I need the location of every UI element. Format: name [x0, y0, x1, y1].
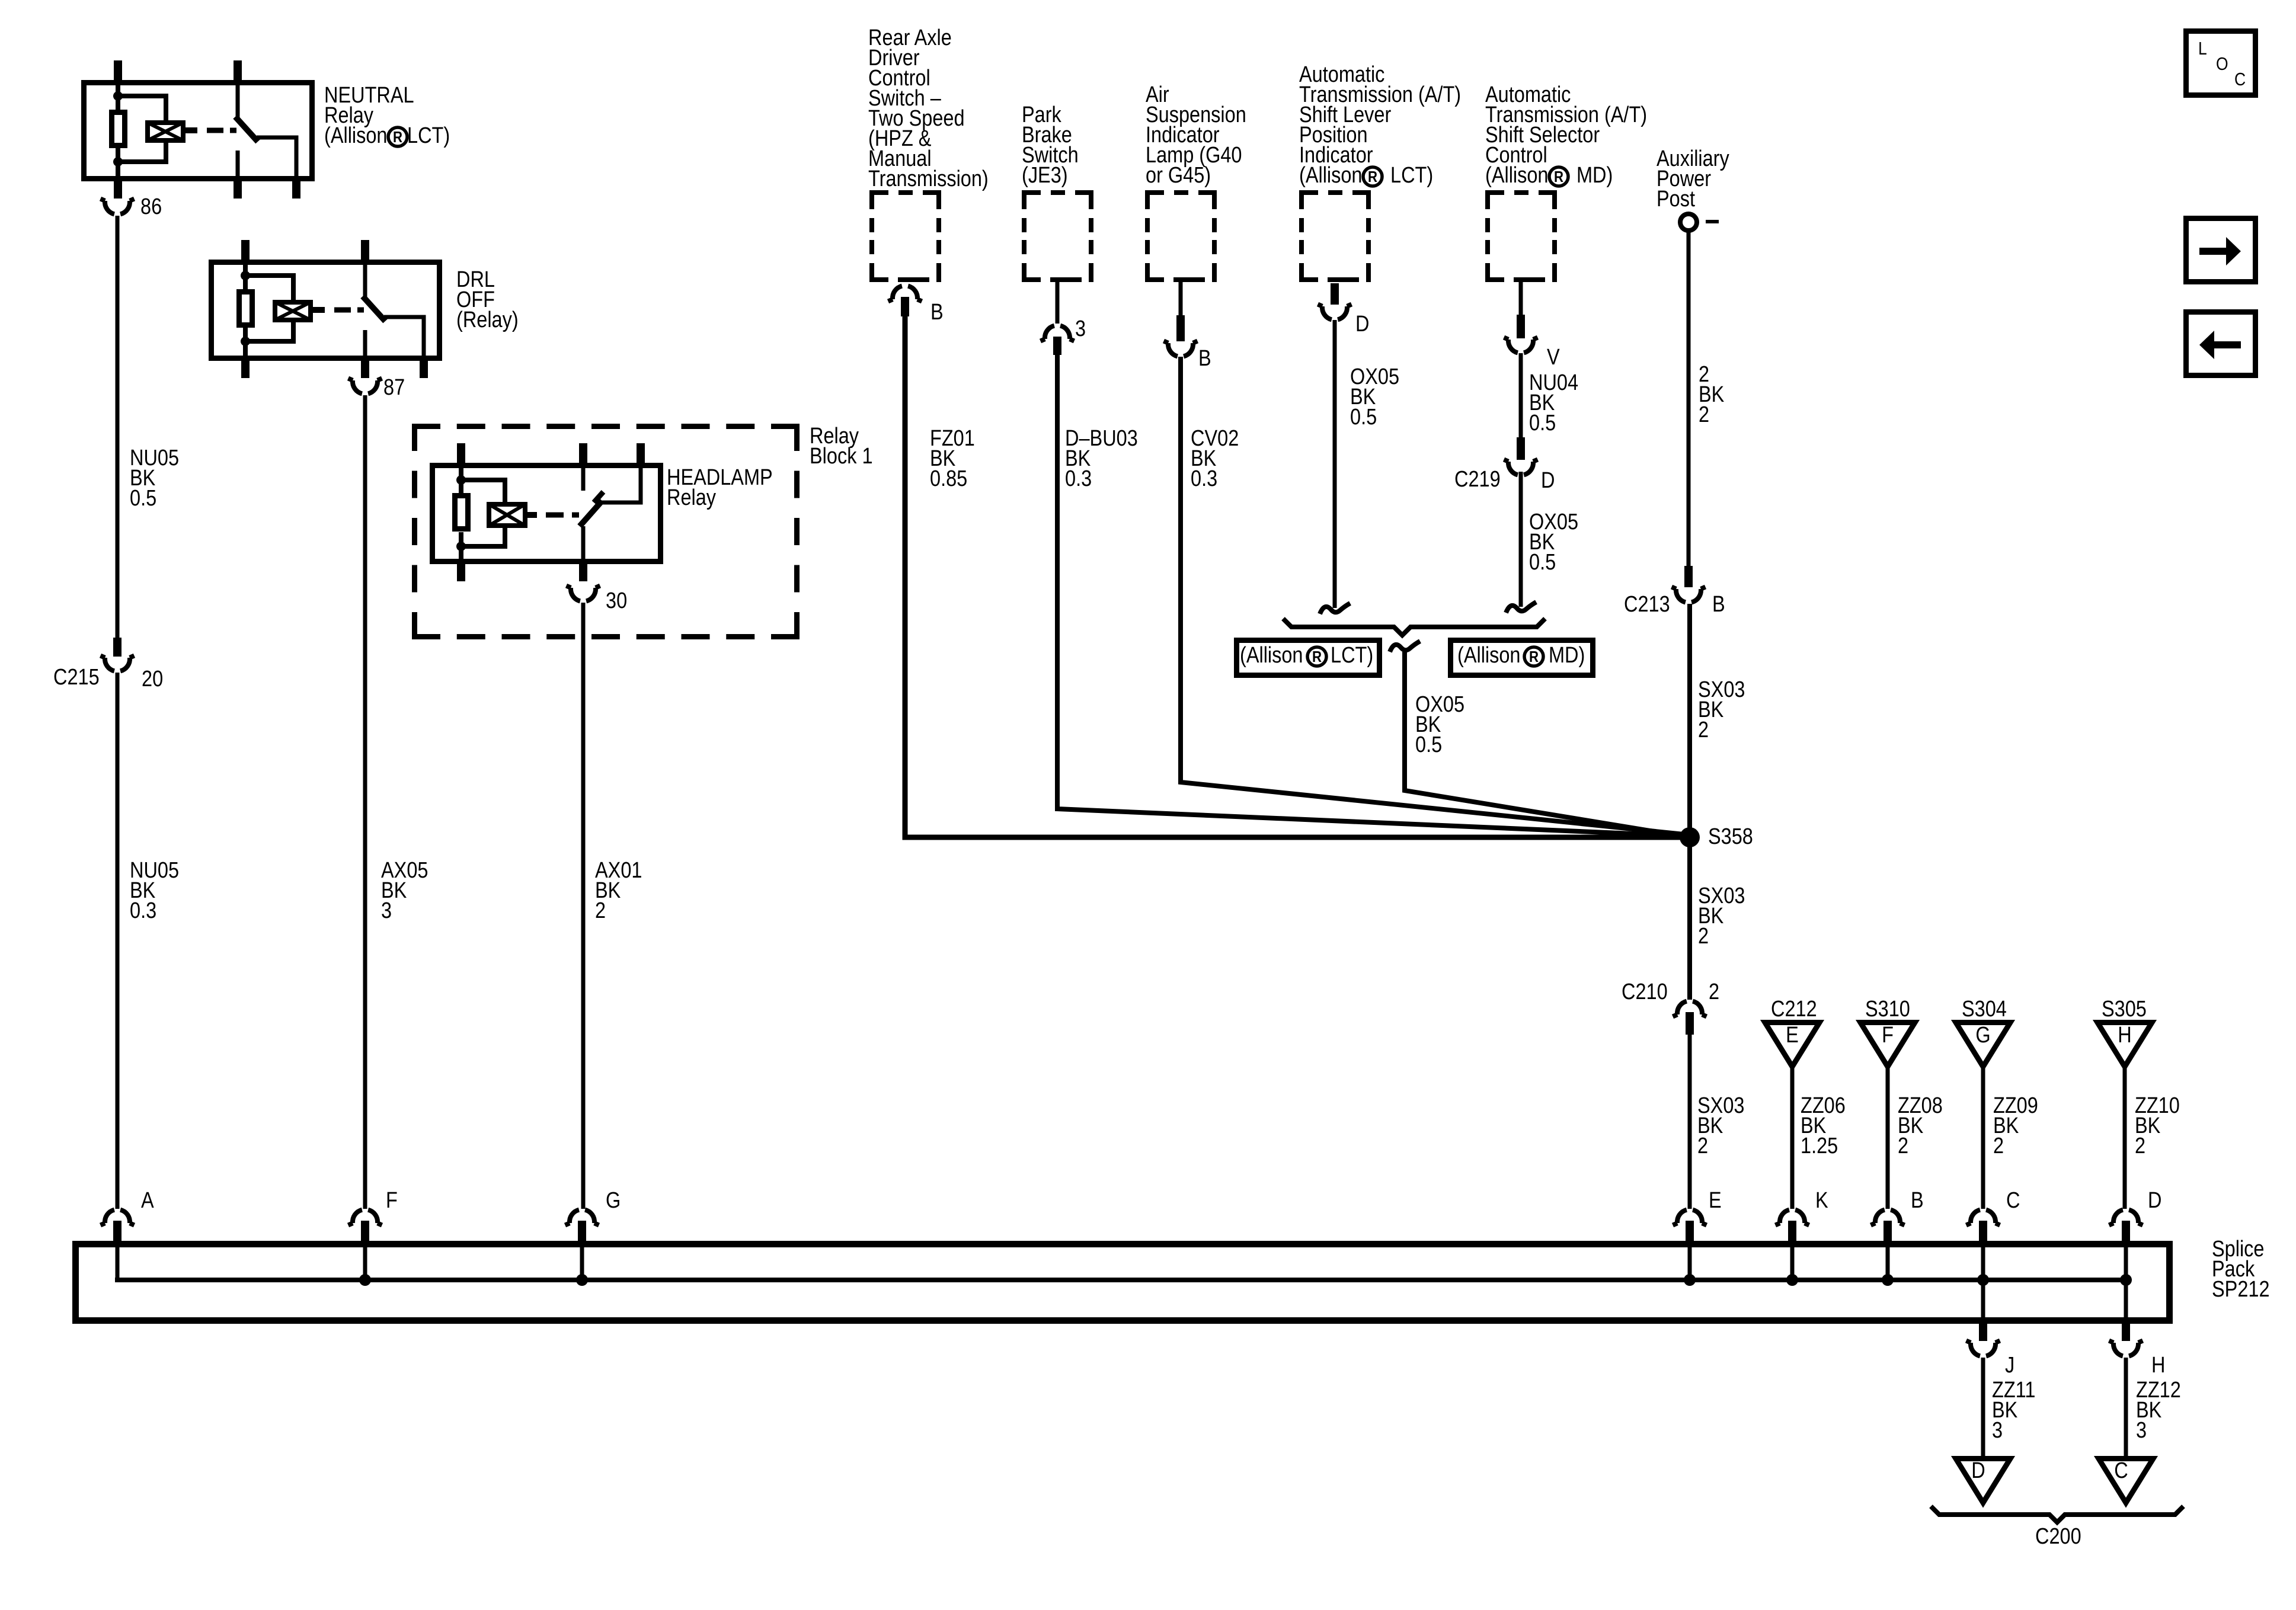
connector: Shift Lever Indicator terminal D — [1318, 283, 1352, 319]
svg-text:3: 3 — [381, 898, 392, 923]
wire NU05 BK 0.3 : C215 to SP212 cavity A — [116, 673, 120, 1209]
svg-text:S358: S358 — [1708, 824, 1753, 849]
svg-text:F: F — [1882, 1023, 1894, 1048]
label: Park Brake Switch (JE3) — [1022, 103, 1079, 188]
wire label SX03 BK 2 — [1697, 1093, 1744, 1158]
boxed label (Allison R LCT) — [1237, 641, 1380, 676]
splice/connector S304 triangle G — [1956, 1023, 2010, 1067]
svg-text:2: 2 — [1709, 980, 1719, 1004]
wire label FZ01 BK 0.85 — [930, 426, 975, 491]
label: NEUTRAL Relay (Allison R LCT) — [324, 83, 450, 148]
SP212 cavity G connector — [565, 1210, 599, 1280]
label C215 — [53, 665, 100, 690]
svg-text:20: 20 — [142, 667, 163, 692]
pin label 86 — [140, 194, 162, 219]
svg-text:0.5: 0.5 — [130, 486, 156, 511]
svg-text:2: 2 — [595, 898, 606, 923]
connector: Shift Selector Control terminal V — [1504, 282, 1538, 353]
splice/connector S310 triangle F — [1860, 1023, 1915, 1067]
svg-text:(Allison: (Allison — [1457, 643, 1521, 668]
svg-text:B: B — [1911, 1188, 1924, 1213]
svg-text:R: R — [1554, 168, 1563, 185]
svg-text:3: 3 — [1075, 316, 1086, 341]
wire label AX01 BK 2 — [595, 858, 642, 923]
SP212 internal wire C to J — [1981, 1280, 1985, 1321]
label: Air Suspension Indicator Lamp — [1146, 82, 1246, 188]
dashed box: Park Brake switch box — [1024, 193, 1091, 280]
pin label 30 — [606, 588, 627, 613]
terminal label D — [1355, 312, 1369, 337]
wire 2 BK 2 : Aux Power Post to C213 — [1687, 231, 1691, 567]
svg-text:Relay: Relay — [667, 485, 716, 510]
svg-text:F: F — [386, 1188, 398, 1213]
label: Relay Block 1 — [810, 424, 873, 469]
SP212 internal bus — [117, 1278, 2126, 1280]
svg-text:0.3: 0.3 — [1065, 466, 1092, 491]
connector C200 triangle D — [1956, 1458, 2010, 1503]
wire label OX05 BK 0.5 — [1350, 364, 1399, 430]
SP212 cavity F connector — [348, 1210, 382, 1280]
svg-text:S305: S305 — [2102, 997, 2147, 1022]
connector C200 triangle C — [2099, 1458, 2153, 1503]
SP212 internal wire D to H — [2124, 1280, 2128, 1321]
svg-text:K: K — [1815, 1188, 1828, 1213]
connector C213 cavity B — [1672, 566, 1706, 602]
wire label ZZ09 — [1993, 1093, 2038, 1158]
svg-text:(Allison: (Allison — [1240, 643, 1303, 668]
svg-text:C: C — [2114, 1458, 2128, 1483]
connector C219 cavity D — [1504, 437, 1538, 475]
cavity label J — [2005, 1353, 2014, 1378]
svg-text:V: V — [1547, 345, 1560, 370]
wire label OX05 BK 0.5 (MD branch) — [1529, 510, 1578, 575]
label B — [1712, 592, 1725, 617]
bus junction at x=616 — [359, 1274, 371, 1286]
wire AX05 BK 3 : DRL 87 to SP212 cavity F — [363, 395, 367, 1209]
SP212 cavity J connector — [1966, 1321, 2000, 1356]
svg-text:C210: C210 — [1622, 980, 1668, 1004]
cavity label C — [2006, 1188, 2020, 1213]
terminal label B — [930, 300, 944, 325]
svg-text:3: 3 — [2136, 1418, 2147, 1443]
brace joining Allison LCT / MD branches — [1283, 619, 1545, 635]
relay: DRL OFF Relay — [212, 240, 440, 378]
left arrow navigation box — [2186, 312, 2256, 376]
wire label ZZ08 — [1898, 1093, 1943, 1158]
connector C215 pin 20 — [101, 638, 135, 671]
terminal label V — [1547, 345, 1560, 370]
splice/connector S305 triangle H — [2097, 1023, 2152, 1067]
relay: NEUTRAL Relay (Allison LCT) — [84, 60, 312, 199]
wire SX03 BK 2 : S358 to C210 — [1687, 837, 1692, 1000]
wire label D-BU03 BK 0.3 — [1065, 426, 1138, 491]
wire label OX05 BK 0.5 (to S358) — [1415, 692, 1464, 757]
svg-text:D: D — [1541, 468, 1555, 493]
boxed label (Allison R MD) — [1451, 641, 1593, 676]
label: DRL OFF (Relay) — [456, 267, 519, 332]
svg-text:C213: C213 — [1624, 592, 1670, 617]
label: Rear Axle Driver Control Switch — [868, 25, 989, 191]
wire label AX05 BK 3 — [381, 858, 428, 923]
SP212 cavity E connector — [1673, 1210, 1707, 1280]
svg-text:MD): MD) — [1576, 163, 1613, 188]
svg-text:S310: S310 — [1865, 997, 1910, 1022]
svg-text:D: D — [1355, 312, 1369, 337]
svg-text:SP212: SP212 — [2212, 1277, 2270, 1302]
label D — [1541, 468, 1555, 493]
wire label ZZ10 — [2135, 1093, 2180, 1158]
wire label NU04 BK 0.5 — [1529, 370, 1578, 436]
svg-text:2: 2 — [1698, 718, 1709, 742]
svg-text:30: 30 — [606, 588, 627, 613]
svg-text:E: E — [1709, 1188, 1722, 1213]
continuation squiggle below brace — [1390, 641, 1420, 652]
label 2 — [1709, 980, 1719, 1004]
wire NU04 BK 0.5 : Shift Selector V to C219 — [1519, 353, 1523, 440]
svg-text:C: C — [2006, 1188, 2020, 1213]
minus sign — [1706, 220, 1719, 223]
svg-text:2: 2 — [1898, 1134, 1908, 1158]
wire OX05 BK 0.5 : brace to splice S358 — [1405, 652, 1690, 837]
svg-text:C200: C200 — [2035, 1524, 2081, 1549]
svg-text:Post: Post — [1657, 187, 1695, 212]
svg-text:B: B — [1198, 346, 1211, 371]
svg-text:2: 2 — [1993, 1134, 2004, 1158]
label C210 — [1622, 980, 1668, 1004]
svg-text:Block 1: Block 1 — [810, 444, 873, 469]
svg-text:2: 2 — [1697, 1134, 1708, 1158]
svg-text:C215: C215 — [53, 665, 100, 690]
svg-text:C: C — [2234, 69, 2246, 89]
wire label 2 BK 2 — [1699, 362, 1725, 427]
svg-text:R: R — [1368, 168, 1377, 185]
svg-text:(Allison: (Allison — [1485, 163, 1549, 188]
SP212 cavity A connector — [101, 1210, 135, 1280]
connector: Rear Axle switch terminal B — [888, 286, 922, 316]
dashed box: Relay Block 1 — [412, 424, 800, 639]
svg-text:A: A — [141, 1188, 154, 1213]
dashed box: Air Suspension lamp box — [1147, 193, 1214, 280]
cavity label B — [1911, 1188, 1924, 1213]
continuation squiggle on OX05 MD branch — [1506, 602, 1536, 613]
cavity label H — [2151, 1353, 2165, 1378]
svg-text:R: R — [1529, 648, 1539, 665]
svg-text:(Allison: (Allison — [324, 123, 388, 148]
svg-text:C219: C219 — [1454, 467, 1501, 492]
wire SX03 BK 2 : C210 to SP212 cavity E — [1688, 1033, 1692, 1209]
SP212 cavity C connector — [1966, 1210, 2000, 1280]
SP212 cavity K connector — [1776, 1210, 1809, 1280]
connector: HEADLAMP relay pin 30 — [567, 586, 600, 601]
dashed box: Shift Lever Position Indicator box — [1302, 193, 1368, 280]
svg-text:LCT): LCT) — [1390, 163, 1433, 188]
continuation squiggle on OX05 LCT branch — [1320, 603, 1350, 614]
SP212 cavity H connector — [2109, 1321, 2143, 1356]
svg-text:2: 2 — [1699, 402, 1709, 427]
wire label CV02 BK 0.3 — [1191, 426, 1239, 491]
bus junction at x=3346 — [1977, 1274, 1989, 1286]
wire SX03 BK 2 : C213 to S358 — [1687, 604, 1692, 837]
bus junction at x=3587 — [2120, 1274, 2132, 1286]
wire label NU05 BK 0.5 — [130, 446, 179, 511]
label S305 — [2102, 997, 2147, 1022]
connector C210 cavity 2 — [1673, 1001, 1707, 1035]
svg-text:86: 86 — [140, 194, 162, 219]
splice/connector C212 triangle E — [1765, 1023, 1819, 1067]
label Splice Pack SP212 — [2212, 1237, 2270, 1302]
bus junction at x=2851 — [1684, 1274, 1696, 1286]
wire label NU05 BK 0.3 — [130, 858, 179, 923]
wire ZZ12 BK 3 : SP212 H to C200 C — [2124, 1358, 2128, 1458]
label: HEADLAMP Relay — [667, 465, 773, 510]
connector: DRL OFF relay pin 87 — [348, 379, 382, 394]
dashed box: Shift Selector Control box — [1488, 193, 1555, 280]
cavity label F — [386, 1188, 398, 1213]
wire ZZ08 BK 2 : S310-F to SP212 cavity B — [1886, 1067, 1890, 1209]
svg-text:H: H — [2151, 1353, 2165, 1378]
label C213 — [1624, 592, 1670, 617]
cavity label K — [1815, 1188, 1828, 1213]
label: A/T Shift Selector Control — [1485, 82, 1647, 188]
cavity label A — [141, 1188, 154, 1213]
connector: Air Suspension lamp terminal B — [1164, 282, 1198, 356]
svg-text:0.5: 0.5 — [1415, 732, 1442, 757]
svg-text:R: R — [1312, 648, 1322, 665]
wire label SX03 BK 2 — [1698, 677, 1745, 742]
svg-text:B: B — [930, 300, 944, 325]
svg-text:Transmission): Transmission) — [868, 167, 989, 191]
LOC reference box — [2186, 31, 2256, 95]
svg-text:H: H — [2118, 1023, 2131, 1048]
svg-text:0.3: 0.3 — [1191, 466, 1217, 491]
bus junction at x=982 — [576, 1274, 588, 1286]
splice S358 — [1680, 827, 1700, 847]
wire FZ01 BK 0.85 : Rear Axle B to splice S358 — [905, 315, 1690, 837]
brace C200 — [1931, 1506, 2183, 1522]
connector: Park Brake switch terminal 3 — [1041, 282, 1075, 355]
relay: HEADLAMP Relay — [433, 443, 661, 581]
svg-text:LCT): LCT) — [1331, 643, 1373, 668]
bus junction at x=3024 — [1786, 1274, 1798, 1286]
svg-text:C212: C212 — [1771, 997, 1817, 1022]
svg-text:G: G — [1975, 1023, 1990, 1048]
wire AX01 BK 2 : HEADLAMP 30 to SP212 cavity G — [581, 603, 586, 1209]
wire label ZZ12 BK 3 — [2136, 1378, 2181, 1443]
Auxiliary Power Post terminal — [1680, 214, 1697, 231]
right arrow navigation box — [2186, 219, 2256, 282]
pin label 87 — [383, 375, 405, 400]
svg-text:D: D — [2148, 1188, 2161, 1213]
label S304 — [1962, 997, 2007, 1022]
svg-text:E: E — [1786, 1023, 1799, 1048]
SP212 cavity B connector — [1871, 1210, 1905, 1280]
svg-text:2: 2 — [1698, 924, 1709, 949]
svg-text:1.25: 1.25 — [1801, 1134, 1838, 1158]
svg-text:0.5: 0.5 — [1529, 550, 1556, 575]
svg-text:MD): MD) — [1549, 643, 1585, 668]
svg-text:or G45): or G45) — [1146, 163, 1211, 188]
connector: NEUTRAL relay pin 86 — [101, 199, 135, 215]
wire OX05 BK 0.5 : Shift Lever D down to brace — [1333, 320, 1337, 608]
wire ZZ10 BK 2 : S305-H to SP212 cavity D — [2123, 1067, 2127, 1209]
label: Auxiliary Power Post — [1657, 146, 1729, 212]
wire ZZ09 BK 2 : S304-G to SP212 cavity C — [1981, 1067, 1985, 1209]
svg-text:(Allison: (Allison — [1299, 163, 1363, 188]
svg-text:S304: S304 — [1962, 997, 2007, 1022]
wire label ZZ11 BK 3 — [1992, 1378, 2035, 1443]
Splice Pack SP212 box — [76, 1244, 2170, 1321]
wire OX05 BK 0.5 : C219 to brace — [1519, 472, 1523, 607]
wire label ZZ06 — [1801, 1093, 1846, 1158]
wire label SX03 BK 2 — [1698, 884, 1745, 949]
label C219 — [1454, 467, 1501, 492]
label C212 — [1771, 997, 1817, 1022]
cavity label G — [606, 1188, 621, 1213]
svg-text:L: L — [2198, 39, 2207, 59]
wire ZZ06 BK 1.25 : C212-E to SP212 cavity K — [1790, 1067, 1795, 1209]
wire CV02 BK 0.3 : Air Suspension B to splice S358 — [1181, 357, 1690, 835]
svg-text:3: 3 — [1992, 1418, 2003, 1443]
svg-text:J: J — [2005, 1353, 2014, 1378]
wire NU05 BK 0.5 : NEUTRAL 86 to C215 — [116, 216, 120, 638]
svg-text:87: 87 — [383, 375, 405, 400]
svg-text:2: 2 — [2135, 1134, 2145, 1158]
SP212 cavity D connector — [2109, 1210, 2143, 1280]
label: A/T Shift Lever Position Indicator — [1299, 62, 1461, 188]
label 20 — [142, 667, 163, 692]
label C200 — [2035, 1524, 2081, 1549]
svg-text:0.3: 0.3 — [130, 898, 156, 923]
cavity label E — [1709, 1188, 1722, 1213]
dashed box: Rear Axle switch box — [872, 193, 939, 280]
svg-text:D: D — [1971, 1458, 1985, 1483]
cavity label D — [2148, 1188, 2161, 1213]
svg-text:(JE3): (JE3) — [1022, 163, 1068, 188]
terminal label 3 — [1075, 316, 1086, 341]
svg-text:0.5: 0.5 — [1529, 411, 1556, 436]
svg-text:0.5: 0.5 — [1350, 405, 1377, 430]
wire D-BU03 BK 0.3 : Park Brake 3 to splice S358 — [1057, 355, 1690, 836]
svg-text:B: B — [1712, 592, 1725, 617]
svg-text:LCT): LCT) — [407, 123, 450, 148]
terminal label B — [1198, 346, 1211, 371]
svg-text:R: R — [393, 129, 402, 146]
svg-text:O: O — [2216, 54, 2228, 74]
svg-text:G: G — [606, 1188, 621, 1213]
label S358 — [1708, 824, 1753, 849]
svg-text:0.85: 0.85 — [930, 466, 967, 491]
label S310 — [1865, 997, 1910, 1022]
svg-text:(Relay): (Relay) — [456, 308, 519, 332]
wire ZZ11 BK 3 : SP212 J to C200 D — [1981, 1358, 1985, 1458]
bus junction at x=3185 — [1882, 1274, 1894, 1286]
